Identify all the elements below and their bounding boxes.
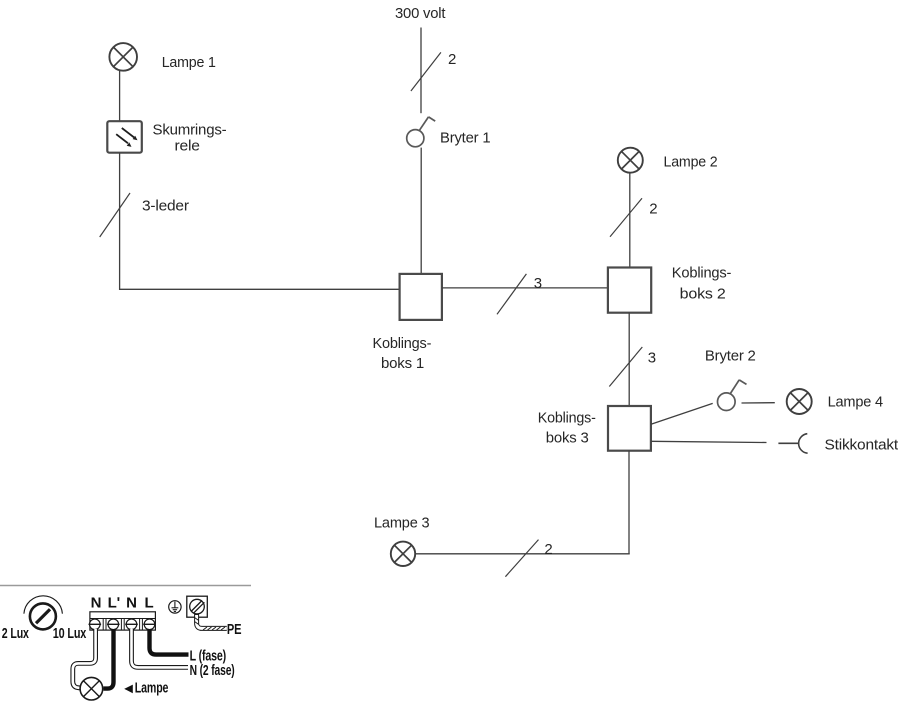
wire Koblingsboks 2 to Koblingsboks 3 xyxy=(628,313,630,406)
junction box Koblingsboks 2 xyxy=(608,265,732,313)
svg-text:rele: rele xyxy=(175,138,200,155)
inset top border line xyxy=(0,585,251,587)
inset neutral wire from terminal N to lamp (white conductor) xyxy=(73,629,96,688)
svg-text:N: N xyxy=(126,595,137,612)
svg-text:Koblings-: Koblings- xyxy=(538,410,596,427)
twilight relay Skumringsrele xyxy=(107,121,226,154)
svg-text:Lampe: Lampe xyxy=(135,679,169,696)
inset lamp symbol xyxy=(80,677,103,700)
svg-text:Lampe 1: Lampe 1 xyxy=(162,54,216,71)
inset terminal screw 4 (L) xyxy=(143,619,156,630)
conductor-count slash 3 between box 1 and box 2 xyxy=(497,274,542,314)
svg-text:Koblings-: Koblings- xyxy=(373,335,432,352)
junction box Koblingsboks 3 xyxy=(538,406,651,451)
svg-text:Lampe 3: Lampe 3 xyxy=(374,515,429,532)
svg-text:3-leder: 3-leder xyxy=(142,198,189,215)
inset PE screw terminal box xyxy=(187,596,208,617)
inset PE earth wire (hatched conductor) xyxy=(195,614,227,630)
wire Koblingsboks 3 to Stikkontakt xyxy=(651,441,767,442)
svg-text:PE: PE xyxy=(227,621,242,638)
svg-text:boks 2: boks 2 xyxy=(680,286,726,303)
svg-text:N: N xyxy=(91,595,102,612)
lamp Lampe 3 xyxy=(374,515,429,566)
inset label PE xyxy=(227,621,242,638)
svg-text:Bryter 1: Bryter 1 xyxy=(440,129,490,146)
inset terminal screw 3 (N) xyxy=(125,619,138,630)
svg-text:10 Lux: 10 Lux xyxy=(53,625,87,642)
lamp Lampe 2 xyxy=(618,148,718,173)
inset label N (2 fase) xyxy=(190,662,235,679)
lamp Lampe 4 xyxy=(787,389,883,414)
svg-text:L: L xyxy=(145,595,154,612)
svg-text:2: 2 xyxy=(544,541,552,558)
net 300 volt supply label xyxy=(395,5,446,22)
inset switched live wire L' to lamp (black conductor) xyxy=(104,629,114,689)
svg-text:Lʹ: Lʹ xyxy=(108,595,120,612)
wire Skumringsrele down to corner junction xyxy=(119,153,121,290)
svg-text:Koblings-: Koblings- xyxy=(672,265,732,282)
switch Bryter 2 xyxy=(705,348,756,411)
inset terminal strip labels N L' N L xyxy=(91,595,154,612)
svg-text:2: 2 xyxy=(649,201,657,218)
conductor-count slash 2 on Lampe 3 wire xyxy=(505,540,552,577)
wire Koblingsboks 3 down to Lampe 3 xyxy=(415,451,629,554)
svg-text:3: 3 xyxy=(534,275,542,292)
inset terminal strip body xyxy=(90,612,155,630)
wire Koblingsboks 1 to Koblingsboks 2 xyxy=(442,287,608,289)
svg-text:Stikkontakt: Stikkontakt xyxy=(825,437,898,454)
wire Lampe 1 to Skumringsrele xyxy=(119,71,121,122)
inset arrow and Lampe label xyxy=(124,679,168,696)
svg-text:3: 3 xyxy=(648,349,656,366)
svg-text:300 volt: 300 volt xyxy=(395,5,446,22)
conductor-count slash 3-leder xyxy=(100,193,189,237)
svg-text:2: 2 xyxy=(448,51,456,68)
lamp Lampe 1 xyxy=(109,43,215,71)
conductor-count slash 2 on supply wire xyxy=(411,51,456,91)
inset lux adjustment dial xyxy=(2,596,87,642)
svg-text:Lampe 4: Lampe 4 xyxy=(828,393,883,410)
switch Bryter 1 xyxy=(407,117,491,147)
svg-text:boks 3: boks 3 xyxy=(546,429,589,446)
wire corner junction to Koblingsboks 1 xyxy=(119,288,400,290)
svg-text:Lampe 2: Lampe 2 xyxy=(664,153,718,170)
conductor-count slash 2 on Lampe 2 wire xyxy=(610,198,657,236)
wire Lampe 2 to Koblingsboks 2 xyxy=(629,173,631,268)
conductor-count slash 3 between box 2 and box 3 xyxy=(609,347,656,387)
inset terminal screw 2 (L') xyxy=(107,619,120,630)
wire Bryter 2 to Lampe 4 xyxy=(742,402,775,404)
inset terminal screw 1 (N) xyxy=(89,619,102,630)
socket outlet Stikkontakt xyxy=(778,434,898,454)
svg-text:boks 1: boks 1 xyxy=(381,355,424,372)
svg-text:2 Lux: 2 Lux xyxy=(2,625,30,642)
svg-text:Bryter 2: Bryter 2 xyxy=(705,348,756,365)
inset live wire L to L (fase) (black conductor) xyxy=(150,629,189,655)
junction box Koblingsboks 1 xyxy=(373,274,442,372)
svg-text:Skumrings-: Skumrings- xyxy=(153,122,227,139)
inset neutral wire N to N (2 fase) (white conductor) xyxy=(132,629,189,667)
wire supply to Koblingsboks 1 (vertical, passes Bryter 1) xyxy=(420,28,422,274)
svg-text:N (2 fase): N (2 fase) xyxy=(190,662,235,679)
inset earth symbol in circle xyxy=(169,601,181,613)
inset label L (fase) xyxy=(190,648,227,665)
wire Koblingsboks 3 to Bryter 2 (diagonal) xyxy=(651,403,713,424)
